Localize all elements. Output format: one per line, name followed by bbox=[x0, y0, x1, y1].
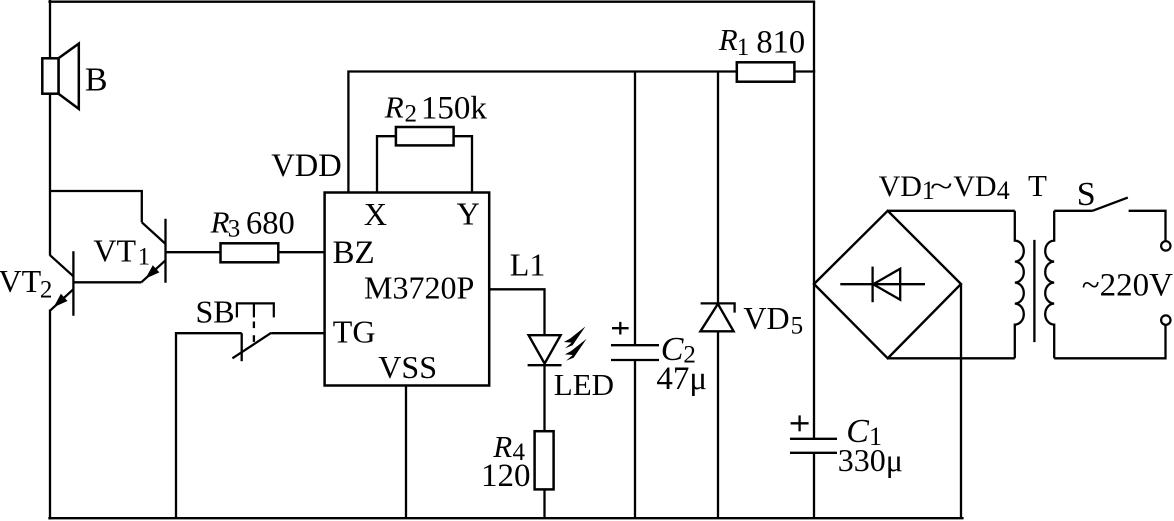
wire R2 to Y pin bbox=[454, 136, 472, 192]
svg-text:330μ: 330μ bbox=[838, 442, 903, 478]
svg-text:810: 810 bbox=[756, 25, 805, 61]
svg-text:VD: VD bbox=[953, 170, 996, 203]
resistor R2 bbox=[384, 90, 488, 146]
wire SB left contact to bottom rail bbox=[176, 333, 242, 517]
capacitor C2 bbox=[611, 322, 707, 397]
wire bottom rail bbox=[48, 517, 963, 519]
svg-text:150k: 150k bbox=[421, 91, 488, 127]
transformer core bbox=[1033, 240, 1035, 342]
svg-text:LED: LED bbox=[554, 367, 614, 402]
switch S bbox=[1077, 176, 1128, 213]
wire left border upper bbox=[49, 0, 51, 256]
wire left border lower bbox=[49, 310, 51, 520]
wire top border bbox=[48, 1, 815, 3]
transistor VT2 bbox=[0, 251, 73, 316]
wire secondary top to switch bbox=[1054, 210, 1092, 212]
svg-text:5: 5 bbox=[791, 313, 804, 340]
bridge rectifier VD1-VD4 bbox=[814, 168, 1047, 358]
wire VD5 branch top bbox=[717, 72, 719, 304]
wire VSS to bottom rail bbox=[405, 386, 407, 518]
svg-text:VSS: VSS bbox=[378, 349, 437, 385]
svg-text:VT: VT bbox=[0, 263, 42, 299]
wire bridge AC top to transformer bbox=[888, 210, 1015, 212]
wire R3 to BZ pin bbox=[278, 251, 324, 253]
svg-text:4: 4 bbox=[997, 176, 1010, 205]
svg-text:~: ~ bbox=[930, 170, 953, 203]
svg-text:1: 1 bbox=[138, 243, 151, 270]
resistor R4 bbox=[481, 429, 554, 494]
wire SB to TG pin bbox=[271, 332, 324, 334]
svg-text:47μ: 47μ bbox=[656, 361, 707, 397]
wire VT1 emitter to VT2 base bbox=[73, 281, 141, 283]
svg-text:X: X bbox=[364, 196, 387, 232]
wire C2 to bottom rail bbox=[634, 360, 636, 517]
svg-text:T: T bbox=[1028, 168, 1047, 203]
capacitor C1 bbox=[790, 413, 903, 478]
wire X pin to R2 bbox=[377, 136, 396, 192]
transformer T secondary winding bbox=[1045, 211, 1054, 358]
svg-text:S: S bbox=[1077, 176, 1096, 213]
svg-text:B: B bbox=[85, 61, 108, 98]
svg-text:TG: TG bbox=[333, 313, 376, 349]
wire right main line upper bbox=[813, 2, 815, 439]
svg-text:2: 2 bbox=[405, 101, 418, 128]
svg-text:M3720P: M3720P bbox=[364, 269, 474, 305]
wire VDD rail bbox=[348, 72, 736, 193]
svg-text:VD: VD bbox=[879, 170, 922, 203]
svg-text:VDD: VDD bbox=[271, 148, 341, 184]
wire bridge AC bottom to transformer bbox=[888, 357, 1015, 359]
transformer T primary winding bbox=[1015, 211, 1024, 358]
svg-text:R: R bbox=[718, 22, 738, 57]
wire VD5 to bottom rail bbox=[717, 331, 719, 517]
LED VL bbox=[528, 326, 614, 402]
svg-text:1: 1 bbox=[737, 34, 750, 61]
wire R4 to bottom rail bbox=[543, 489, 545, 517]
terminal circle bottom bbox=[1161, 315, 1170, 324]
wire C2 branch top bbox=[634, 72, 636, 345]
svg-text:L1: L1 bbox=[510, 247, 546, 283]
wire R1 right lead bbox=[794, 70, 815, 72]
svg-text:R: R bbox=[210, 205, 230, 240]
svg-text:120: 120 bbox=[481, 458, 531, 494]
svg-text:BZ: BZ bbox=[333, 235, 375, 271]
svg-text:VD: VD bbox=[743, 300, 789, 336]
resistor R1 bbox=[718, 22, 805, 82]
op-amp U1 M3720P IC box bbox=[325, 193, 490, 386]
transistor VT1 bbox=[93, 219, 165, 283]
zener diode VD5 bbox=[700, 300, 803, 339]
wire switch to top terminal bbox=[1129, 211, 1166, 241]
svg-text:VT: VT bbox=[93, 233, 136, 269]
wire L1 pin to LED bbox=[489, 247, 545, 336]
svg-text:680: 680 bbox=[246, 206, 295, 242]
wire bottom terminal to secondary bbox=[1054, 325, 1165, 358]
svg-text:SB: SB bbox=[196, 293, 235, 329]
wire C1 to bottom rail bbox=[813, 453, 815, 517]
svg-text:~220V: ~220V bbox=[1082, 268, 1173, 304]
wire LED to R4 bbox=[543, 365, 545, 431]
wire VT1 base to R3 bbox=[166, 251, 221, 253]
svg-text:R: R bbox=[384, 90, 404, 125]
svg-text:Y: Y bbox=[457, 195, 480, 231]
wire bridge DC minus to bottom rail bbox=[960, 284, 962, 517]
resistor R3 bbox=[210, 205, 295, 263]
speaker B bbox=[42, 44, 107, 109]
wire collector rail to VT1 bbox=[50, 191, 142, 222]
pushbutton SB bbox=[196, 293, 274, 361]
terminal circle top bbox=[1161, 241, 1170, 250]
svg-text:3: 3 bbox=[228, 216, 241, 243]
svg-text:2: 2 bbox=[40, 277, 53, 304]
